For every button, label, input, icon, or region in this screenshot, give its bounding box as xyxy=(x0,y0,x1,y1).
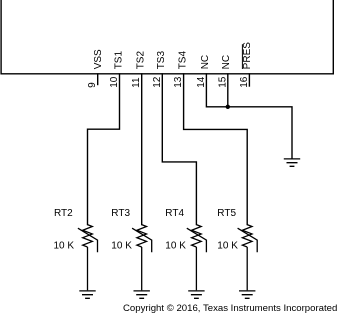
svg-text:VSS: VSS xyxy=(93,49,104,69)
wire RT4 to ground xyxy=(195,247,197,290)
svg-text:PRES: PRES xyxy=(242,42,253,70)
thermistor RT3 body xyxy=(137,225,147,247)
wire RT5 to ground xyxy=(246,247,248,290)
ground RT5 xyxy=(239,291,255,298)
wire NC pin15 stub to net xyxy=(227,74,229,107)
ground RT2 xyxy=(79,291,95,298)
svg-text:10 K: 10 K xyxy=(217,240,238,251)
ground NC net xyxy=(284,159,300,166)
svg-text:RT4: RT4 xyxy=(165,208,184,219)
ground RT4 xyxy=(188,291,204,298)
svg-text:TS3: TS3 xyxy=(156,51,167,70)
svg-text:10 K: 10 K xyxy=(111,240,132,251)
svg-text:Copyright © 2016, Texas Instru: Copyright © 2016, Texas Instruments Inco… xyxy=(123,303,337,314)
thermistor RT4 body xyxy=(192,225,202,247)
pin 16 stub (PRES) xyxy=(248,74,250,86)
svg-text:15: 15 xyxy=(217,76,228,88)
svg-text:TS1: TS1 xyxy=(114,51,125,70)
svg-text:13: 13 xyxy=(173,76,184,88)
svg-text:NC: NC xyxy=(200,55,211,69)
svg-text:10 K: 10 K xyxy=(165,240,186,251)
svg-text:12: 12 xyxy=(152,76,163,88)
wire RT3 to ground xyxy=(141,247,143,290)
svg-text:16: 16 xyxy=(239,76,250,88)
svg-text:TS4: TS4 xyxy=(177,51,188,70)
svg-text:10: 10 xyxy=(109,76,120,88)
wire TS4 pin13 to RT5 xyxy=(184,74,248,225)
junction dot pin15 net xyxy=(226,105,230,109)
svg-text:14: 14 xyxy=(196,76,207,88)
thermistor RT2 body xyxy=(83,225,93,247)
pin 9 stub (VSS) xyxy=(97,74,99,85)
IC U1 body (partial, cut off at top) xyxy=(1,0,333,74)
svg-text:NC: NC xyxy=(221,55,232,69)
svg-text:9: 9 xyxy=(87,82,98,88)
svg-text:RT3: RT3 xyxy=(111,208,130,219)
svg-text:TS2: TS2 xyxy=(135,51,146,70)
wire TS2 pin11 to RT3 xyxy=(141,74,143,225)
wire NC pin14 to ground net xyxy=(206,74,292,158)
svg-text:11: 11 xyxy=(131,77,142,88)
thermistor RT5 body xyxy=(242,225,252,247)
wire RT2 to ground xyxy=(87,247,89,290)
svg-text:RT5: RT5 xyxy=(217,208,236,219)
ground RT3 xyxy=(134,291,150,298)
svg-text:10 K: 10 K xyxy=(54,240,75,251)
wire TS1 pin10 to RT2 xyxy=(88,74,120,225)
svg-text:RT2: RT2 xyxy=(54,208,73,219)
wire TS3 pin12 to RT4 xyxy=(162,74,196,225)
